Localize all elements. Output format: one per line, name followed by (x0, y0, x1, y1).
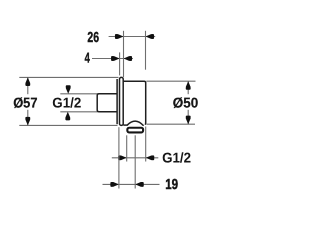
wire extension line x=145.5 (145, 31, 147, 70)
svg-text:G1/2: G1/2 (52, 96, 81, 112)
wire extension x=126.7 bottom (126, 135, 128, 161)
body bottom edge left segment (123, 124, 127, 126)
node arrow G12-left up (65, 112, 70, 121)
wire extension x=118.9 bottom (118, 127, 120, 188)
node arrow D57 up (25, 77, 30, 86)
node arrow 4 left (111, 56, 120, 61)
wire dim line D50 vertical (187, 81, 189, 94)
wire dim line D57 vertical (27, 77, 29, 94)
svg-text:4: 4 (85, 51, 90, 67)
wire dim line G12 bottom (112, 157, 159, 159)
node arrow G12-bottom left (118, 155, 127, 160)
wire body bottom extension right (146, 123, 195, 125)
wire body top extension right (146, 80, 195, 82)
node arrow D50 down (186, 116, 191, 125)
wire dim line 19 (103, 183, 160, 185)
svg-text:G1/2: G1/2 (162, 151, 191, 167)
outlet dome (127, 121, 144, 126)
node arrow G12-bottom right (146, 155, 155, 160)
svg-text:26: 26 (87, 30, 99, 46)
node arrow 26 right (146, 34, 155, 39)
node arrow 4 right (124, 56, 133, 61)
wire extension line flange bottom left (19, 124, 117, 126)
flange plate D57 (120, 77, 124, 125)
outlet nut (127, 128, 143, 133)
wire pipe bottom extension (60, 111, 97, 113)
wire extension line x=123.5 (123, 31, 125, 77)
wire dim line 4 (92, 58, 133, 60)
svg-text:Ø57: Ø57 (13, 96, 37, 112)
wire extension line flange top left (19, 76, 118, 78)
wire extension x=145.7 bottom (145, 127, 147, 162)
svg-text:19: 19 (165, 177, 178, 193)
wire extension line x=119.6 (119, 52, 121, 75)
wire dim line 26 (109, 36, 156, 38)
node arrow 19 right (135, 182, 144, 187)
pipe G1/2 nipple (97, 94, 117, 112)
node arrow 26 left (115, 34, 124, 39)
body D50 top edge (123, 81, 145, 124)
svg-text:Ø50: Ø50 (173, 96, 198, 112)
node arrow D57 down (25, 117, 30, 126)
node arrow D50 up (186, 81, 191, 90)
node arrow 19 left (110, 182, 119, 187)
wire extension x=135.2 bottom (134, 135, 136, 188)
wire pipe top extension (60, 93, 97, 95)
node arrow G12-left down (66, 85, 71, 94)
collar (116, 79, 118, 124)
